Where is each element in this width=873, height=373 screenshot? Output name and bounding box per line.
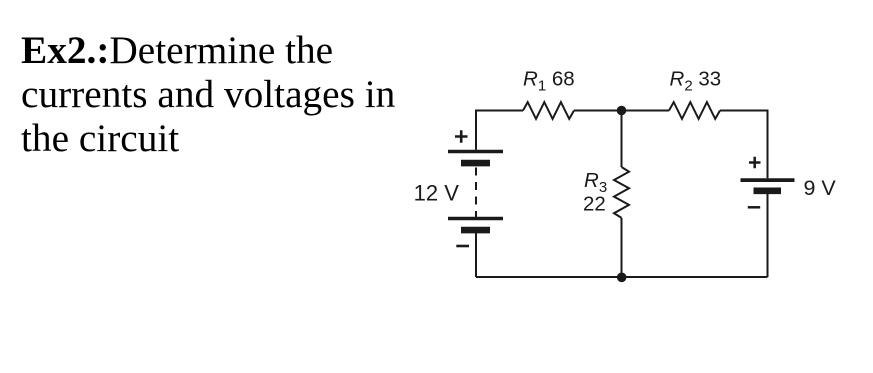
- svg-text:R2 33: R2 33: [670, 67, 722, 94]
- battery B2 plus sign: [749, 157, 761, 169]
- battery B2 positive plate: [741, 178, 795, 182]
- node A junction dot: [617, 106, 627, 116]
- battery B1 cell1 negative plate: [461, 160, 490, 167]
- battery B2 negative plate: [754, 188, 782, 195]
- svg-text:22: 22: [583, 193, 606, 216]
- wire top-left (from left rail corner to R1): [476, 111, 523, 150]
- battery B1 plus sign: [455, 130, 468, 143]
- svg-text:R1 68: R1 68: [523, 67, 575, 94]
- battery B1 cell1 positive plate: [448, 150, 503, 154]
- resistor R3 zigzag: [614, 167, 629, 218]
- node B junction dot: [617, 273, 627, 283]
- svg-text:12 V: 12 V: [414, 181, 460, 206]
- title text: [21, 28, 441, 160]
- battery B1 cell2 positive plate: [448, 217, 503, 221]
- resistor R1 zigzag: [523, 102, 574, 119]
- battery B2 minus sign: [748, 206, 760, 209]
- svg-text:9 V: 9 V: [804, 176, 837, 200]
- battery B1 cell2 negative plate: [461, 227, 490, 234]
- wire middle branch bottom (R3 to node B): [621, 218, 623, 277]
- battery B1 dashed link between cells: [475, 168, 477, 218]
- battery B1 minus sign: [456, 245, 469, 248]
- wire right rail bottom (9V battery to bottom-right corner): [767, 194, 769, 277]
- wire top-right (R2 to right rail corner): [720, 111, 768, 179]
- wire top-middle (R1 to R2 through node A): [574, 110, 669, 112]
- wire middle branch top (node A to R3): [621, 111, 623, 168]
- resistor R2 zigzag: [669, 102, 720, 119]
- wire bottom rail: [476, 276, 768, 278]
- wire left rail bottom (battery to bottom-left corner): [475, 233, 477, 277]
